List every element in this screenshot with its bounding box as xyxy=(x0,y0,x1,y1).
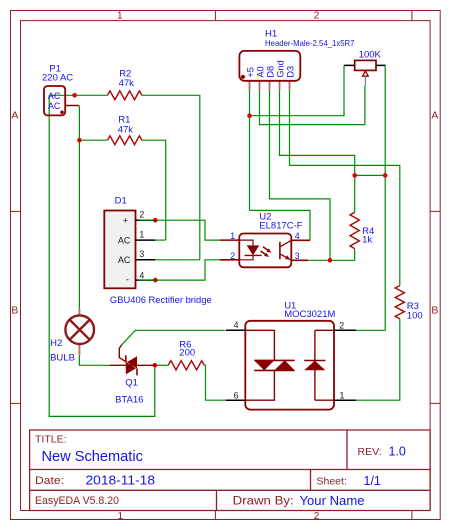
resistor R3 xyxy=(395,286,422,322)
junction at pot right net xyxy=(383,173,388,178)
junction at P1 pin 1 xyxy=(72,93,77,98)
svg-text:TITLE:: TITLE: xyxy=(35,433,67,445)
wire D1.4 to U2.2 xyxy=(139,260,221,280)
svg-text:Q1: Q1 xyxy=(125,377,138,388)
svg-text:H2: H2 xyxy=(50,338,62,349)
svg-text:AC: AC xyxy=(118,255,131,265)
svg-text:2: 2 xyxy=(314,11,320,22)
junction at R4 top xyxy=(352,173,357,178)
resistor R4 xyxy=(350,212,374,248)
TITLE BLOCK xyxy=(30,430,431,511)
svg-text:200: 200 xyxy=(179,348,195,359)
wire P1.2 down to bulb H2 xyxy=(78,106,80,309)
wire R1 left branch xyxy=(79,139,107,141)
wire U1.4 to Q1 gate xyxy=(122,330,225,345)
svg-text:New Schematic: New Schematic xyxy=(42,449,143,465)
header H1 xyxy=(239,29,354,91)
svg-text:-: - xyxy=(126,275,129,286)
svg-text:1: 1 xyxy=(340,390,345,400)
connector P1 xyxy=(42,63,79,115)
wire U2.3 to junction xyxy=(308,259,330,261)
wire H1.Gnd to R4 top xyxy=(280,90,355,212)
svg-text:A: A xyxy=(431,110,438,121)
wire H1.D3 to R3 top xyxy=(290,90,400,285)
wire D1.1 stub to R1 vertical xyxy=(155,239,165,241)
svg-text:2018-11-18: 2018-11-18 xyxy=(86,472,156,487)
wire pot right terminal down to U1.2 xyxy=(356,65,385,330)
svg-text:A: A xyxy=(11,110,18,121)
svg-text:Header-Male-2.54_1x5R7: Header-Male-2.54_1x5R7 xyxy=(265,38,355,48)
svg-text:3: 3 xyxy=(295,251,300,261)
svg-text:B: B xyxy=(11,305,18,316)
wire R2 right to D1.3 xyxy=(142,95,200,259)
triac Q1 xyxy=(110,345,155,406)
svg-text:B: B xyxy=(431,305,438,316)
svg-text:MOC3021M: MOC3021M xyxy=(284,309,335,320)
svg-text:1: 1 xyxy=(139,229,144,239)
svg-text:Sheet:: Sheet: xyxy=(317,476,347,488)
resistor R2 xyxy=(108,68,142,99)
svg-text:A0: A0 xyxy=(255,66,265,77)
wire R3 bottom to U1.1 xyxy=(356,319,400,400)
svg-text:1.0: 1.0 xyxy=(389,445,406,459)
junction node +5 xyxy=(247,113,252,118)
svg-text:47k: 47k xyxy=(119,78,135,89)
potentiometer 100K xyxy=(344,50,385,86)
wire R4 top junction to pot right junction xyxy=(355,174,386,176)
svg-text:AC: AC xyxy=(48,101,61,111)
wire H1.D8 to U2.3 junction xyxy=(270,90,331,260)
svg-text:4: 4 xyxy=(139,270,144,280)
svg-text:6: 6 xyxy=(234,390,239,400)
bridge rectifier D1 xyxy=(104,196,211,306)
junction at Q1 / R6 xyxy=(153,363,158,368)
svg-text:47k: 47k xyxy=(118,124,134,135)
svg-text:4: 4 xyxy=(295,231,300,241)
svg-text:BULB: BULB xyxy=(50,353,75,364)
wire R6 right to U1.6 xyxy=(204,365,226,400)
svg-text:100: 100 xyxy=(407,311,423,322)
wire H1.A0 to pot wiper xyxy=(260,86,365,125)
svg-text:+5: +5 xyxy=(245,67,255,77)
svg-text:2: 2 xyxy=(339,320,344,330)
wire +5 to U2.4 xyxy=(250,210,311,240)
svg-text:AC: AC xyxy=(118,236,131,246)
svg-text:BTA16: BTA16 xyxy=(115,395,143,406)
wire D1.2 green over stub xyxy=(139,220,155,280)
svg-text:4: 4 xyxy=(234,320,239,330)
junction at D1 pin 2 xyxy=(153,218,158,223)
svg-text:AC: AC xyxy=(48,91,61,101)
svg-text:REV:: REV: xyxy=(358,446,382,458)
svg-text:D1: D1 xyxy=(115,196,127,207)
svg-text:220 AC: 220 AC xyxy=(42,73,73,84)
wire P1.1 to R2 left (net AC1) xyxy=(49,94,107,96)
svg-text:EasyEDA V5.8.20: EasyEDA V5.8.20 xyxy=(35,495,119,507)
svg-text:1k: 1k xyxy=(362,235,372,246)
optocoupler U2 xyxy=(220,212,310,268)
optotriac U1 xyxy=(226,300,356,409)
svg-text:2: 2 xyxy=(139,209,144,219)
junction at D1 pin 4 xyxy=(153,278,158,283)
lamp H2 xyxy=(50,309,94,364)
svg-text:EL817C-F: EL817C-F xyxy=(259,220,302,231)
wire Q1 to R6 left xyxy=(155,364,168,366)
resistor R6 xyxy=(168,340,204,370)
wire H1.+5 down xyxy=(249,90,251,210)
wire D1.2 to U2.1 xyxy=(139,220,221,240)
junction at R1 left xyxy=(77,138,82,143)
svg-text:1: 1 xyxy=(117,11,123,22)
svg-text:D8: D8 xyxy=(265,66,275,78)
wire +5 to pot left terminal xyxy=(250,65,345,115)
svg-text:1: 1 xyxy=(117,511,123,522)
resistor R1 xyxy=(108,115,142,145)
svg-text:2: 2 xyxy=(230,251,235,261)
svg-text:1: 1 xyxy=(230,231,235,241)
wire junction to R4 bottom xyxy=(330,249,355,261)
svg-text:+: + xyxy=(123,215,129,226)
svg-text:GBU406 Rectifier bridge: GBU406 Rectifier bridge xyxy=(110,295,212,306)
wire left loop P1.1 to Q1 junction xyxy=(49,95,155,416)
svg-text:1/1: 1/1 xyxy=(364,474,381,488)
svg-text:3: 3 xyxy=(139,249,144,259)
junction at U2 pin 3 xyxy=(328,258,333,263)
wire bulb H2 to Q1 xyxy=(79,355,110,365)
svg-text:100K: 100K xyxy=(359,50,382,61)
svg-text:Drawn By:: Drawn By: xyxy=(233,496,294,508)
svg-text:2: 2 xyxy=(314,511,320,522)
wire D1.3 stub to R2 vertical xyxy=(155,259,200,261)
svg-text:Your Name: Your Name xyxy=(300,493,365,508)
svg-text:Gnd: Gnd xyxy=(275,60,285,77)
wire R1 right to D1.1 xyxy=(142,140,166,240)
svg-text:Date:: Date: xyxy=(35,475,64,487)
svg-text:D3: D3 xyxy=(285,66,295,78)
